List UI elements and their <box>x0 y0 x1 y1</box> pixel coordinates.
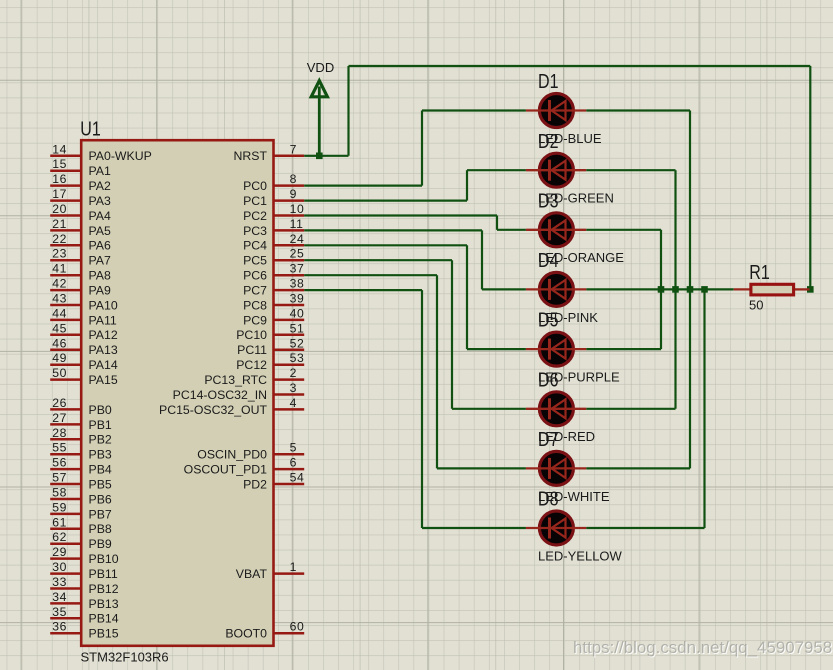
svg-text:PA11: PA11 <box>89 313 117 327</box>
wire D1 anode <box>586 109 690 111</box>
svg-text:28: 28 <box>52 426 67 440</box>
power VDD arrow symbol <box>311 81 327 97</box>
svg-text:27: 27 <box>52 411 67 425</box>
svg-text:PA6: PA6 <box>89 239 111 253</box>
svg-text:PB7: PB7 <box>89 507 112 521</box>
LED D2 LED-GREEN <box>526 131 614 206</box>
pin 26 PB0 <box>50 408 81 411</box>
svg-text:PD2: PD2 <box>243 477 267 491</box>
svg-text:PB10: PB10 <box>89 552 119 566</box>
svg-text:10: 10 <box>290 202 305 216</box>
wire PC4 to D5 <box>304 244 467 246</box>
pin 50 PA15 <box>50 378 81 381</box>
svg-text:PB2: PB2 <box>89 433 112 447</box>
svg-text:PB15: PB15 <box>89 627 119 641</box>
wire vertical bus x=661 <box>660 230 662 349</box>
svg-text:D6: D6 <box>538 369 559 391</box>
svg-text:54: 54 <box>290 471 305 485</box>
svg-text:PC12: PC12 <box>236 358 267 372</box>
junction <box>687 286 694 293</box>
svg-text:11: 11 <box>290 217 304 231</box>
svg-text:30: 30 <box>52 560 67 574</box>
pin 39 PC8 <box>274 304 305 307</box>
pin 11 PC3 <box>274 229 305 232</box>
pin 28 PB2 <box>50 438 81 441</box>
svg-text:8: 8 <box>290 172 297 186</box>
svg-text:PC14-OSC32_IN: PC14-OSC32_IN <box>173 388 267 402</box>
svg-text:14: 14 <box>52 142 67 156</box>
wire PC5 to D6 <box>304 259 452 261</box>
svg-text:PB12: PB12 <box>89 582 119 596</box>
pin 46 PA13 <box>50 349 81 352</box>
pin 8 PC0 <box>274 184 305 187</box>
pin 60 BOOT0 <box>274 632 305 635</box>
svg-text:PA9: PA9 <box>89 284 111 298</box>
svg-text:PA10: PA10 <box>89 298 118 312</box>
svg-text:44: 44 <box>52 306 67 320</box>
wire PC2 to D3 <box>304 214 497 216</box>
pin 25 PC5 <box>274 259 305 262</box>
svg-text:26: 26 <box>52 396 67 410</box>
wire NRST to VDD junction <box>304 155 319 157</box>
wire D3 anode <box>586 229 661 231</box>
svg-text:56: 56 <box>52 456 67 470</box>
pin 1 VBAT <box>274 572 305 575</box>
svg-text:50: 50 <box>52 366 67 380</box>
svg-text:PC7: PC7 <box>243 284 267 298</box>
svg-text:1: 1 <box>290 560 297 574</box>
svg-text:PA8: PA8 <box>89 269 111 283</box>
svg-text:29: 29 <box>52 545 67 559</box>
svg-text:33: 33 <box>52 575 67 589</box>
svg-text:36: 36 <box>52 620 67 634</box>
svg-text:PA7: PA7 <box>89 254 111 268</box>
svg-text:PA4: PA4 <box>89 209 111 223</box>
svg-text:22: 22 <box>52 232 67 246</box>
svg-text:5: 5 <box>290 441 297 455</box>
pin 17 PA3 <box>50 199 81 202</box>
microcontroller U1 STM32F103R6 body <box>81 140 273 646</box>
wire D6 anode <box>586 408 675 410</box>
svg-text:PA2: PA2 <box>89 179 111 193</box>
svg-text:PA12: PA12 <box>89 328 118 342</box>
pin 4 PC15-OSC32_OUT <box>274 408 305 411</box>
svg-text:PB8: PB8 <box>89 522 112 536</box>
svg-text:PB6: PB6 <box>89 492 112 506</box>
pin 16 PA2 <box>50 184 81 187</box>
pin 5 OSCIN_PD0 <box>274 453 305 456</box>
svg-text:39: 39 <box>290 292 305 306</box>
pin 56 PB4 <box>50 468 81 471</box>
pin 54 PD2 <box>274 483 305 486</box>
svg-text:6: 6 <box>290 456 297 470</box>
svg-text:62: 62 <box>52 530 67 544</box>
svg-text:PC8: PC8 <box>243 298 267 312</box>
pin 53 PC12 <box>274 363 305 366</box>
LED D8 LED-YELLOW <box>526 489 623 564</box>
pin 7 NRST <box>274 155 305 158</box>
resistor R1 50 <box>734 262 810 313</box>
pin 3 PC14-OSC32_IN <box>274 393 305 396</box>
svg-text:PC0: PC0 <box>243 179 267 193</box>
pin 43 PA10 <box>50 304 81 307</box>
pin 58 PB6 <box>50 498 81 501</box>
pin 34 PB13 <box>50 602 81 605</box>
LED D7 LED-WHITE <box>526 429 610 504</box>
LED D5 LED-PURPLE <box>526 310 620 385</box>
pin 38 PC7 <box>274 289 305 292</box>
wire D4 anode rail to R1 <box>586 288 734 290</box>
svg-text:PC10: PC10 <box>236 328 267 342</box>
junction <box>658 286 665 293</box>
pin 35 PB14 <box>50 617 81 620</box>
svg-text:D3: D3 <box>538 190 559 212</box>
wire PC3 to D4 <box>304 229 482 231</box>
svg-text:PC9: PC9 <box>243 313 267 327</box>
wire VDD vertical drop <box>318 87 321 156</box>
svg-text:D8: D8 <box>538 489 559 511</box>
svg-text:42: 42 <box>52 277 67 291</box>
pin 55 PB3 <box>50 453 81 456</box>
LED D6 LED-RED <box>526 369 595 444</box>
LED D4 LED-PINK <box>526 250 598 325</box>
svg-text:PC1: PC1 <box>243 194 267 208</box>
junction <box>672 286 679 293</box>
svg-text:PB13: PB13 <box>89 597 119 611</box>
svg-text:PA14: PA14 <box>89 358 118 372</box>
svg-text:PB5: PB5 <box>89 477 112 491</box>
svg-text:4: 4 <box>290 396 297 410</box>
svg-text:PB11: PB11 <box>89 567 118 581</box>
pin 42 PA9 <box>50 289 81 292</box>
svg-text:60: 60 <box>290 620 305 634</box>
svg-text:59: 59 <box>52 500 67 514</box>
svg-text:24: 24 <box>290 232 305 246</box>
pin 33 PB12 <box>50 587 81 590</box>
pin 41 PA8 <box>50 274 81 277</box>
svg-text:VBAT: VBAT <box>236 567 268 581</box>
svg-text:61: 61 <box>52 515 67 529</box>
svg-text:PB9: PB9 <box>89 537 112 551</box>
pin 22 PA6 <box>50 244 81 247</box>
pin 9 PC1 <box>274 199 305 202</box>
pin 37 PC6 <box>274 274 305 277</box>
svg-text:17: 17 <box>52 187 67 201</box>
pin 51 PC10 <box>274 334 305 337</box>
wire junction to top rail riser <box>319 155 348 157</box>
pin 27 PB1 <box>50 423 81 426</box>
svg-text:37: 37 <box>290 262 305 276</box>
pin 20 PA4 <box>50 214 81 217</box>
svg-text:52: 52 <box>290 336 305 350</box>
svg-text:PA3: PA3 <box>89 194 111 208</box>
svg-text:58: 58 <box>52 486 67 500</box>
svg-text:43: 43 <box>52 292 67 306</box>
svg-text:9: 9 <box>290 187 297 201</box>
pin 45 PA12 <box>50 334 81 337</box>
wire D5 anode <box>586 348 661 350</box>
wire right edge down to R1 <box>809 66 811 289</box>
pin 49 PA14 <box>50 363 81 366</box>
LED D1 LED-BLUE <box>526 71 602 146</box>
svg-text:PA1: PA1 <box>89 164 111 178</box>
svg-text:53: 53 <box>290 351 305 365</box>
svg-text:PA0-WKUP: PA0-WKUP <box>89 149 152 163</box>
pin 61 PB8 <box>50 528 81 531</box>
svg-text:R1: R1 <box>749 262 770 284</box>
svg-text:STM32F103R6: STM32F103R6 <box>81 650 169 665</box>
wire PC6 to D7 <box>304 274 437 276</box>
svg-text:PA5: PA5 <box>89 224 111 238</box>
pin 14 PA0-WKUP <box>50 155 81 158</box>
pin 57 PB5 <box>50 483 81 486</box>
pin 62 PB9 <box>50 542 81 545</box>
pin 6 OSCOUT_PD1 <box>274 468 305 471</box>
svg-text:51: 51 <box>290 321 305 335</box>
svg-text:LED-YELLOW: LED-YELLOW <box>538 548 623 563</box>
svg-text:40: 40 <box>290 306 305 320</box>
svg-text:49: 49 <box>52 351 67 365</box>
pin 23 PA7 <box>50 259 81 262</box>
svg-text:41: 41 <box>52 262 67 276</box>
svg-text:55: 55 <box>52 441 67 455</box>
pin 52 PC11 <box>274 349 305 352</box>
svg-text:D7: D7 <box>538 429 559 451</box>
svg-text:3: 3 <box>290 381 297 395</box>
svg-text:35: 35 <box>52 605 67 619</box>
pin 44 PA11 <box>50 319 81 322</box>
svg-text:U1: U1 <box>80 118 101 140</box>
pin 36 PB15 <box>50 632 81 635</box>
svg-text:PC4: PC4 <box>243 239 267 253</box>
svg-text:20: 20 <box>52 202 67 216</box>
pin 40 PC9 <box>274 319 305 322</box>
wire PC0 to D1 <box>304 185 422 187</box>
pin 30 PB11 <box>50 572 81 575</box>
wire D8 anode <box>586 527 704 529</box>
svg-text:34: 34 <box>52 590 67 604</box>
wire riser up <box>347 66 349 156</box>
pin 10 PC2 <box>274 214 305 217</box>
wire PC1 to D2 <box>304 200 467 202</box>
svg-text:D5: D5 <box>538 310 559 332</box>
svg-text:PC2: PC2 <box>243 209 267 223</box>
svg-text:15: 15 <box>52 157 67 171</box>
svg-text:PC15-OSC32_OUT: PC15-OSC32_OUT <box>159 403 267 417</box>
wire PC7 to D8 <box>304 289 422 291</box>
svg-text:PC3: PC3 <box>243 224 267 238</box>
svg-text:21: 21 <box>52 217 67 231</box>
svg-text:PC5: PC5 <box>243 254 267 268</box>
wire D7 anode <box>586 467 690 469</box>
wire vertical bus x=704.5 <box>703 289 705 528</box>
svg-text:38: 38 <box>290 277 305 291</box>
svg-text:D2: D2 <box>538 131 559 153</box>
svg-text:https://blog.csdn.net/qq_45907: https://blog.csdn.net/qq_459079587 <box>573 638 833 657</box>
pin 15 PA1 <box>50 169 81 172</box>
svg-text:D1: D1 <box>538 71 559 93</box>
pin 59 PB7 <box>50 513 81 516</box>
svg-text:PB3: PB3 <box>89 448 112 462</box>
svg-text:PB1: PB1 <box>89 418 112 432</box>
svg-text:57: 57 <box>52 471 67 485</box>
pin 29 PB10 <box>50 557 81 560</box>
wire top rail horizontal <box>349 65 811 67</box>
junction <box>316 153 323 160</box>
svg-text:BOOT0: BOOT0 <box>225 627 267 641</box>
wire vertical bus x=675.5 <box>674 170 676 409</box>
svg-text:PC13_RTC: PC13_RTC <box>204 373 267 387</box>
svg-text:PA15: PA15 <box>89 373 118 387</box>
svg-text:PB0: PB0 <box>89 403 112 417</box>
svg-text:25: 25 <box>290 247 305 261</box>
svg-text:50: 50 <box>749 298 763 313</box>
svg-text:VDD: VDD <box>307 60 334 75</box>
svg-text:PC11: PC11 <box>237 343 267 357</box>
svg-text:PA13: PA13 <box>89 343 118 357</box>
wire vertical bus x=690 <box>689 111 691 469</box>
svg-text:NRST: NRST <box>234 149 268 163</box>
wire D2 anode <box>586 169 675 171</box>
pin 2 PC13_RTC <box>274 378 305 381</box>
pin 24 PC4 <box>274 244 305 247</box>
svg-text:PB14: PB14 <box>89 612 119 626</box>
svg-text:2: 2 <box>290 366 297 380</box>
svg-text:23: 23 <box>52 247 67 261</box>
junction <box>701 286 708 293</box>
svg-text:PC6: PC6 <box>243 269 267 283</box>
svg-text:7: 7 <box>290 142 297 156</box>
svg-text:PB4: PB4 <box>89 463 112 477</box>
svg-text:D4: D4 <box>538 250 559 272</box>
LED D3 LED-ORANGE <box>526 190 624 265</box>
pin 21 PA5 <box>50 229 81 232</box>
svg-text:46: 46 <box>52 336 67 350</box>
svg-text:45: 45 <box>52 321 67 335</box>
svg-text:16: 16 <box>52 172 67 186</box>
svg-text:OSCIN_PD0: OSCIN_PD0 <box>197 448 267 462</box>
junction <box>807 286 814 293</box>
svg-text:OSCOUT_PD1: OSCOUT_PD1 <box>184 463 268 477</box>
